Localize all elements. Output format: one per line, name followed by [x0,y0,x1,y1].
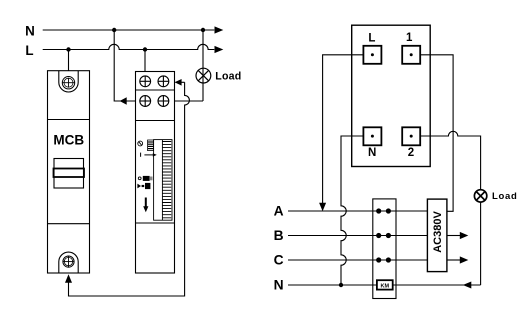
arrowhead N line [215,26,224,33]
lamp (right) [474,190,486,202]
wire N drop through lamp (x=203) [202,30,204,101]
junction dot on L at x=68.5 [66,47,70,51]
wire lamp to N line [480,202,482,285]
MCB bottom screw [63,256,75,267]
junction dot on L at x=145 [143,47,147,51]
wire stub with arrow into timer top right [176,81,185,83]
arrowhead pointing left on that wire [120,97,127,104]
svg-text:2: 2 [408,147,414,159]
terminal L square [363,46,381,64]
svg-text:C: C [274,253,284,268]
svg-text:B: B [274,228,284,243]
wire from terminal 2 with hop to lamp [420,131,480,189]
AC380V box [427,199,447,272]
timer terminal divider 1 [136,89,175,91]
timer dial housing [154,140,172,221]
wire from N junction down-left into timer [114,30,135,101]
timer set arrow [144,153,156,156]
contactor box [373,199,396,299]
phase B line [288,235,427,237]
timer down arrow [143,198,148,213]
contactor pole dots row A [376,208,391,213]
terminal N square [363,127,381,145]
timer dial stripes [162,142,171,218]
timer I mark [140,153,142,157]
svg-text:KM: KM [381,283,390,289]
timer stripe block [148,140,154,151]
wire N line [43,29,215,31]
arrowhead onto A line [319,203,326,211]
breaker MCB outline [48,71,90,273]
wire from terminal N with hops to N line [341,136,363,285]
MCB switch toggle [54,159,85,189]
MCB top screw [62,77,75,89]
arrowhead into timer right [175,79,182,86]
MCB bottom terminal pocket [59,252,78,273]
arrowhead B output [460,232,469,239]
svg-text:Load: Load [215,71,241,83]
phase A line [288,210,427,212]
svg-text:MCB: MCB [53,132,84,147]
svg-text:A: A [274,204,284,219]
svg-text:N: N [25,24,35,39]
svg-text:1: 1 [406,32,413,44]
svg-text:Load: Load [492,191,518,202]
svg-text:AC380V: AC380V [432,211,444,253]
arrowhead on N line pointing left [463,282,472,289]
phase B output [447,235,462,237]
timer bottom divider [136,222,175,224]
svg-text:L: L [25,43,33,58]
timer screw 3 [140,96,151,107]
terminal 2 square [402,127,420,145]
arrowhead L line [215,46,224,53]
MCB lower divider line [48,223,90,225]
timer box (right diagram) [352,25,431,166]
timer terminal divider 2 [136,120,175,122]
timer screw 1 [140,76,151,87]
lamp (left) [196,68,211,83]
wire L line with hops at x=114 and x=203 [43,44,215,49]
junction dot on N line at x=341 [339,283,343,287]
junction dot on N at x=203 [201,28,205,32]
MCB divider line [48,119,90,121]
wire L to MCB top [68,50,70,71]
junction dot on N at x=114 [112,28,116,32]
svg-text:L: L [368,32,375,44]
MCB top terminal pocket [59,71,78,92]
neutral N line [288,284,481,286]
svg-text:N: N [274,278,284,293]
timer mode icons [137,176,152,189]
wire right vertical with hop, bottom return to MCB [69,82,190,296]
timer indicator circle [138,141,143,146]
wire from terminal L to A line [323,55,364,208]
terminal 1 square [402,46,420,64]
timer screw 4 [158,96,169,107]
phase C output [447,259,462,261]
phase C line [288,259,427,261]
wire timer right to lamp drop [175,100,204,102]
arrowhead into MCB bottom [65,274,72,283]
timer dial divider [161,140,163,221]
contactor pole dots row B [376,233,391,238]
timer screw 2 [158,76,169,87]
svg-text:N: N [368,147,376,159]
contactor pole dots row C [376,257,391,262]
wire L to timer top terminal [144,50,146,72]
arrowhead C output [460,256,469,263]
wire from terminal 1 down right side [420,55,453,212]
contactor coil KM box [377,280,393,289]
timer outline [136,72,175,274]
